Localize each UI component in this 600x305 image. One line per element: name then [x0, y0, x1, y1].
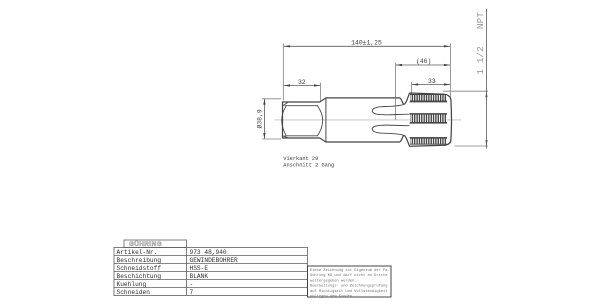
svg-text:Diese Zeichnung ist Eigentum d: Diese Zeichnung ist Eigentum der Fa.: [310, 268, 390, 273]
svg-text:obliegen dem Kunden.: obliegen dem Kunden.: [310, 294, 354, 299]
dimension 33: [412, 78, 450, 86]
extension line square right (x=320.5): [320, 83, 322, 101]
table row Kuehlung: [117, 281, 194, 288]
extension line thread full (x=411.5): [411, 82, 413, 96]
svg-text:Vierkant 29: Vierkant 29: [283, 156, 318, 162]
svg-text:Ø38,9: Ø38,9: [256, 109, 264, 128]
dimension (46): [396, 58, 451, 66]
svg-text:Bearbeitungs- und Zeichnungspr: Bearbeitungs- und Zeichnungsprüfung: [310, 284, 387, 289]
extension line NPT top (y=91.2): [443, 90, 488, 92]
dimension 140±1,25: [284, 40, 451, 48]
flute upper: [372, 105, 409, 115]
svg-text:Anschnitt 2 Gang: Anschnitt 2 Gang: [283, 163, 334, 169]
dimension 32: [284, 79, 321, 87]
svg-text:140±1,25: 140±1,25: [351, 40, 382, 47]
thread band 3: [410, 138, 447, 144]
svg-text:Kuehlung: Kuehlung: [117, 281, 147, 288]
disclaimer box: [308, 266, 392, 299]
table row Beschreibung: [117, 257, 239, 264]
logo box: [124, 240, 187, 248]
svg-text:GEWINDEBOHRER: GEWINDEBOHRER: [190, 257, 239, 264]
thread band 1: [410, 95, 447, 102]
table row Schneiden: [117, 289, 194, 296]
table row Artikel-Nr.: [117, 249, 227, 256]
extension line right end (x=450.4): [449, 44, 451, 98]
table row Beschichtung: [117, 273, 209, 280]
thread root line bottom gap: [410, 122, 448, 124]
neck line: [325, 98, 327, 142]
svg-text:Schneiden: Schneiden: [117, 289, 151, 296]
extension line thread start (x=395.4): [394, 63, 396, 120]
square drive face: [282, 102, 323, 138]
centerline: [275, 119, 462, 121]
svg-text:(46): (46): [416, 58, 431, 65]
svg-text:1 1/2 NPT: 1 1/2 NPT: [475, 12, 486, 75]
svg-text:7: 7: [190, 289, 194, 296]
svg-text:auf Richtigkeit und Vollständi: auf Richtigkeit und Vollständigkeit: [310, 289, 387, 294]
svg-text:33: 33: [428, 78, 436, 85]
dimension Ø38,9: [256, 99, 282, 139]
extension line left (x=283): [282, 44, 284, 101]
svg-text:973 48,940: 973 48,940: [190, 249, 227, 256]
flute lower: [372, 125, 409, 135]
svg-text:HSS-E: HSS-E: [190, 265, 209, 272]
thread band 2: [410, 114, 447, 122]
table row Schneidstoff: [117, 265, 209, 272]
svg-text:Schneidstoff: Schneidstoff: [117, 265, 162, 272]
svg-text:Beschreibung: Beschreibung: [117, 257, 162, 264]
dimension 1 1/2 NPT: [475, 9, 488, 149]
svg-text:Beschichtung: Beschichtung: [117, 273, 162, 280]
svg-text:BLANK: BLANK: [190, 273, 209, 280]
svg-text:Gühring KG und darf nicht an D: Gühring KG und darf nicht an Dritte: [310, 273, 387, 278]
svg-text:Artikel-Nr.: Artikel-Nr.: [117, 249, 158, 256]
table frame: [114, 248, 308, 296]
svg-text:-: -: [190, 281, 194, 288]
svg-text:weitergegeben werden.: weitergegeben werden.: [310, 278, 356, 283]
svg-text:32: 32: [298, 79, 306, 86]
extension line NPT bottom (y=146): [455, 145, 489, 147]
tap body outline: [283, 93, 452, 146]
thread root line top gap: [410, 101, 448, 103]
